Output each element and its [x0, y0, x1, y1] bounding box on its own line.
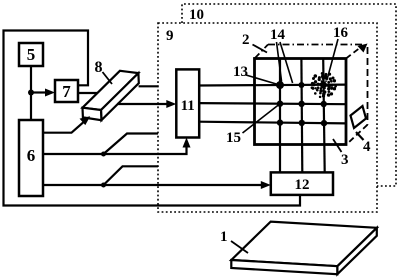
- block 5: [19, 43, 43, 66]
- column wire 2: [300, 59, 303, 173]
- svg-text:8: 8: [95, 59, 103, 76]
- label 1 with leader: [220, 229, 248, 253]
- svg-text:16: 16: [333, 25, 349, 41]
- svg-text:4: 4: [363, 139, 371, 155]
- block 7: [55, 80, 78, 102]
- phantom box 2 top-left diagonal (dash-dot): [255, 45, 269, 59]
- label 4 with tick: [356, 132, 371, 155]
- label 15 with leader: [226, 105, 279, 147]
- arrow wire bar 8 to block 11: [117, 100, 176, 108]
- row wire 1 from block 11: [199, 83, 346, 86]
- svg-text:1: 1: [220, 229, 228, 245]
- svg-text:3: 3: [341, 152, 349, 168]
- node junction on wire 5-6: [28, 90, 34, 96]
- wire branch of output 2 to frame 9: [104, 134, 159, 155]
- bar 8 (3D slanted block): [83, 71, 139, 120]
- wire branch of output 3 to frame 9: [104, 166, 159, 185]
- row wire 2 from block 11: [199, 103, 346, 104]
- svg-text:12: 12: [295, 177, 310, 193]
- svg-text:13: 13: [233, 64, 248, 80]
- svg-text:15: 15: [226, 130, 241, 146]
- label 8 with leader: [95, 59, 113, 84]
- arrow wire block 6 to bar 8 end face: [43, 116, 90, 133]
- frame 9 (dotted): [158, 23, 377, 212]
- phantom box 2 back top edge (dash-dot): [268, 44, 362, 46]
- phantom box 2 top-right diagonal (dashed): [346, 49, 359, 59]
- stippled circle 16 (cell): [311, 72, 337, 98]
- block 12: [271, 172, 333, 195]
- svg-text:14: 14: [270, 27, 286, 43]
- label 2 with leader: [242, 32, 267, 53]
- svg-text:10: 10: [189, 7, 204, 23]
- svg-text:11: 11: [181, 98, 195, 114]
- block 6: [19, 120, 43, 196]
- substrate slab 1 (3D): [231, 222, 376, 275]
- label 3 with leader: [333, 139, 349, 168]
- frame 10 (dotted): [182, 4, 396, 186]
- wire block 7 to bar 8: [78, 92, 97, 94]
- row wire 3 from block 11: [199, 122, 346, 124]
- node junction on output 2: [101, 152, 106, 157]
- wire block 6 output 2 to block 11 bottom with arrow: [43, 138, 191, 155]
- wire junction to block 7 with arrow: [31, 89, 55, 97]
- svg-text:5: 5: [27, 45, 36, 64]
- photodetector 4 parallelogram: [351, 106, 367, 128]
- column wire 1: [279, 59, 281, 173]
- svg-text:2: 2: [242, 32, 250, 48]
- wire feedback loop from block 12 bottom to block 7 right side: [4, 31, 301, 206]
- wire bar 8 to frame 9: [139, 85, 159, 87]
- label 13 with leader: [233, 64, 278, 85]
- label 16 with leader: [327, 25, 349, 80]
- svg-text:9: 9: [166, 28, 174, 44]
- wire from block 5 down to block 6: [30, 66, 32, 120]
- svg-text:6: 6: [27, 146, 36, 165]
- phantom box 2 bottom-right diagonal (dashed): [348, 125, 368, 143]
- wire block 6 output 3 to block 12 with arrow: [43, 181, 271, 189]
- phantom box 2 corner arrowhead: [358, 44, 368, 53]
- label 14 with two leaders: [270, 27, 293, 83]
- column wire 3: [323, 59, 325, 173]
- svg-text:7: 7: [62, 82, 71, 101]
- node junction on output 3: [101, 183, 106, 188]
- matrix block 2 front face: [255, 59, 347, 145]
- phantom box 2 back right edge (dashed): [367, 47, 369, 125]
- node dots 3x3: [276, 81, 327, 126]
- block 11: [176, 69, 199, 137]
